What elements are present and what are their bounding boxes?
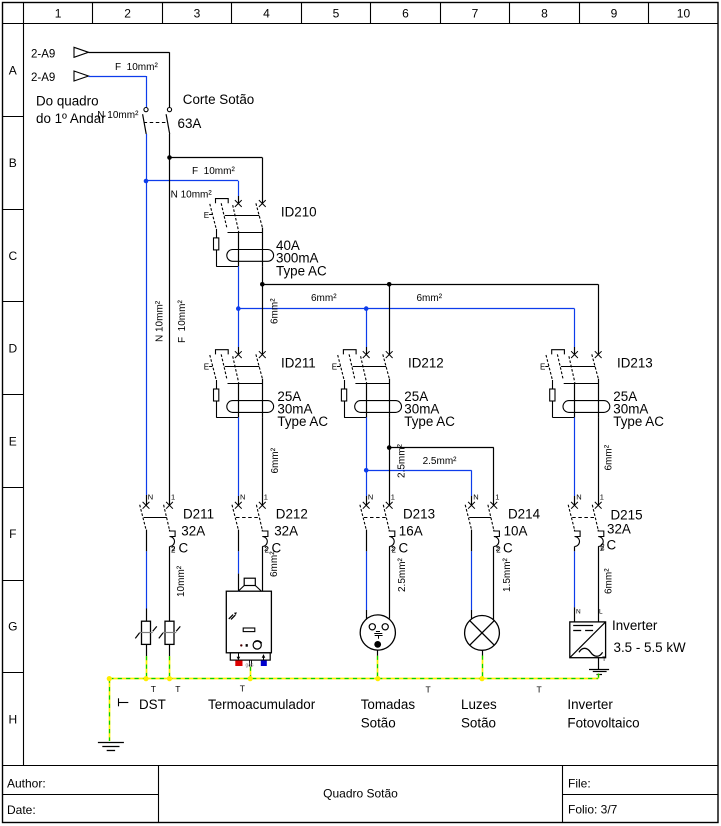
wire F main vertical to D211 bbox=[169, 158, 171, 506]
feeder arrow 2-A9 phase bbox=[74, 47, 89, 57]
svg-text:Sotão: Sotão bbox=[461, 715, 496, 730]
varistor DST N pole bbox=[135, 621, 157, 644]
title block texts bbox=[7, 777, 618, 818]
label ID213 bbox=[617, 356, 653, 371]
svg-text:Fotovoltaico: Fotovoltaico bbox=[567, 715, 639, 730]
wire lamp earth stub bbox=[482, 650, 484, 655]
svg-text:2: 2 bbox=[392, 546, 397, 555]
svg-text:ID212: ID212 bbox=[408, 356, 444, 371]
label Luzes Sotão bbox=[461, 715, 496, 730]
svg-text:T: T bbox=[240, 684, 245, 694]
label T5 bbox=[537, 685, 542, 695]
svg-text:2-A9: 2-A9 bbox=[31, 72, 55, 84]
label DST bbox=[139, 697, 166, 712]
wire F feed horizontal bbox=[89, 52, 170, 54]
label 6mm² D215 feed bbox=[604, 444, 615, 470]
junction F to ID210 bbox=[167, 155, 172, 160]
label do 1º Andar bbox=[36, 111, 106, 126]
label ID210 bbox=[281, 205, 317, 220]
wire D213 N out stub bbox=[366, 530, 368, 552]
svg-text:T: T bbox=[602, 657, 606, 663]
label D215 32A bbox=[607, 522, 631, 537]
svg-text:1: 1 bbox=[171, 492, 175, 501]
svg-text:E: E bbox=[332, 362, 337, 371]
PE junction lamp bbox=[479, 676, 484, 681]
earth symbol main bbox=[98, 743, 124, 751]
svg-text:16A: 16A bbox=[399, 523, 423, 538]
junction F bus left bbox=[260, 282, 265, 287]
svg-text:1: 1 bbox=[391, 492, 395, 501]
wire socket earth stub bbox=[377, 650, 379, 656]
label ID211 30mA bbox=[277, 402, 312, 417]
label Tomadas bbox=[361, 697, 416, 712]
socket outlet Tomadas Sotão bbox=[360, 615, 395, 650]
wire D214 F out bbox=[493, 547, 495, 620]
label D215 2 bbox=[600, 543, 605, 552]
svg-text:D: D bbox=[8, 342, 17, 356]
label ID213 30mA bbox=[613, 402, 648, 417]
label N 10mm² feeder bbox=[97, 110, 139, 121]
label D215 bbox=[611, 508, 643, 523]
svg-text:32A: 32A bbox=[274, 523, 298, 538]
svg-text:3: 3 bbox=[194, 7, 201, 21]
svg-text:F 10mm²: F 10mm² bbox=[177, 300, 188, 343]
PE bus left drop bbox=[109, 679, 111, 741]
svg-text:1: 1 bbox=[495, 492, 499, 501]
wire inverter earth stub bbox=[598, 658, 600, 670]
svg-text:6mm²: 6mm² bbox=[270, 298, 281, 324]
wire F bus bbox=[262, 284, 598, 286]
label 6mm² bus2 bbox=[417, 293, 443, 304]
label N 10mm² to ID210 bbox=[171, 190, 213, 201]
feeder arrow 2-A9 neutral bbox=[74, 71, 89, 81]
label T2 bbox=[175, 684, 180, 694]
label D213 16A bbox=[399, 523, 423, 538]
svg-text:2.5mm²: 2.5mm² bbox=[397, 443, 408, 478]
svg-text:6mm²: 6mm² bbox=[311, 293, 337, 304]
svg-text:N: N bbox=[368, 492, 373, 501]
svg-text:32A: 32A bbox=[181, 523, 205, 538]
wire N stub ID210 bbox=[238, 196, 240, 204]
RCD ID210 40A 300mA bbox=[204, 199, 274, 267]
PE drop socket bbox=[377, 656, 379, 679]
svg-text:H: H bbox=[8, 712, 17, 726]
svg-text:10A: 10A bbox=[504, 523, 528, 538]
label D211 2 bbox=[171, 546, 176, 555]
svg-text:2: 2 bbox=[124, 7, 131, 21]
svg-text:7: 7 bbox=[472, 7, 479, 21]
svg-text:Corte Sotão: Corte Sotão bbox=[183, 92, 254, 107]
svg-text:N: N bbox=[148, 492, 153, 501]
label ID210 300mA bbox=[276, 251, 318, 266]
wire D214 N out stub bbox=[471, 530, 473, 552]
svg-text:do 1º Andar: do 1º Andar bbox=[36, 111, 106, 126]
PE junction heater bbox=[248, 676, 253, 681]
PE junction corner bbox=[107, 676, 112, 681]
label D213 C bbox=[399, 541, 409, 556]
wire ID211 N stub bbox=[238, 496, 240, 505]
junction N to ID210 bbox=[144, 179, 149, 184]
svg-text:D214: D214 bbox=[508, 507, 541, 522]
svg-text:2.5mm²: 2.5mm² bbox=[397, 557, 408, 592]
svg-text:E: E bbox=[204, 211, 209, 220]
svg-text:8: 8 bbox=[541, 7, 548, 21]
wire N drop to ID211 blue bbox=[238, 309, 240, 347]
wire N drop to ID212 blue bbox=[366, 309, 368, 347]
PE junction socket bbox=[375, 676, 380, 681]
wire D213 N out blue bbox=[366, 551, 368, 610]
breaker D212 32A bbox=[232, 492, 268, 553]
label D211 bbox=[183, 507, 214, 522]
wire D211 N out blue bbox=[146, 551, 148, 608]
svg-text:ID213: ID213 bbox=[617, 356, 653, 371]
wire F branch to ID210 bbox=[170, 157, 263, 159]
label 2.5mm² branch bbox=[423, 456, 458, 467]
breaker D213 16A bbox=[360, 492, 395, 553]
wire ID210 N out blue bbox=[238, 266, 240, 308]
label Inverter Fotovoltaico 2 bbox=[567, 715, 639, 730]
svg-text:T: T bbox=[537, 685, 542, 695]
svg-text:G: G bbox=[8, 620, 17, 634]
wire ID212 N out blue bbox=[366, 417, 368, 470]
RCD ID212 25A 30mA bbox=[332, 350, 402, 418]
svg-text:2.5mm²: 2.5mm² bbox=[423, 456, 458, 467]
svg-text:T: T bbox=[151, 684, 156, 694]
svg-text:Type AC: Type AC bbox=[277, 414, 328, 429]
wire N feed drop bbox=[146, 76, 148, 107]
wire D214 N out stub2 bbox=[471, 610, 473, 619]
wire ID213 N stub bbox=[574, 496, 576, 505]
PE drop DST F bbox=[169, 656, 171, 679]
svg-text:B: B bbox=[9, 156, 17, 170]
svg-text:C: C bbox=[503, 541, 513, 556]
label ID212 Type AC bbox=[404, 414, 455, 429]
wire N stub D213 bbox=[366, 496, 368, 505]
svg-text:Type AC: Type AC bbox=[404, 414, 455, 429]
svg-text:1: 1 bbox=[55, 7, 62, 21]
junction F to D213 bbox=[387, 445, 392, 450]
svg-text:C: C bbox=[399, 541, 409, 556]
wire DST N earth stub bbox=[146, 644, 148, 656]
svg-text:6mm²: 6mm² bbox=[270, 447, 281, 473]
svg-text:E: E bbox=[204, 362, 209, 371]
wire D212 F out bbox=[262, 547, 264, 592]
svg-text:Luzes: Luzes bbox=[461, 697, 497, 712]
wire N stub ID212 bbox=[366, 347, 368, 355]
svg-text:T: T bbox=[426, 685, 431, 695]
label Tomadas Sotão bbox=[361, 715, 396, 730]
label 63A bbox=[178, 116, 202, 131]
label D212 C bbox=[272, 541, 282, 556]
svg-text:2: 2 bbox=[496, 546, 501, 555]
label D214 10A bbox=[504, 523, 528, 538]
label ID211 25A bbox=[277, 389, 301, 404]
wire N stub ID213 bbox=[574, 347, 576, 355]
svg-text:A: A bbox=[9, 63, 17, 77]
wire N drop to D214 blue bbox=[471, 470, 473, 496]
svg-text:DST: DST bbox=[139, 697, 166, 712]
wire N stub D211 bbox=[146, 495, 148, 505]
svg-text:6mm²: 6mm² bbox=[417, 293, 443, 304]
wire F drop to ID213 bbox=[598, 284, 600, 354]
lamp Luzes Sotão bbox=[465, 616, 500, 651]
svg-text:2: 2 bbox=[171, 546, 176, 555]
svg-text:6mm²: 6mm² bbox=[269, 551, 280, 577]
svg-text:E: E bbox=[9, 434, 17, 448]
wire D215 N out stub2 bbox=[574, 607, 576, 622]
wire ID210 F out bbox=[262, 266, 264, 284]
wire ID211 F out bbox=[262, 417, 264, 505]
svg-text:T: T bbox=[175, 684, 180, 694]
svg-text:2: 2 bbox=[600, 543, 605, 552]
label Luzes bbox=[461, 697, 497, 712]
wire N stub ID211 bbox=[238, 347, 240, 355]
label T1 bbox=[151, 684, 156, 694]
label 6mm² ID211 to D212 bbox=[270, 447, 281, 473]
wire D212 N out stub bbox=[238, 530, 240, 552]
svg-text:9: 9 bbox=[611, 7, 618, 21]
wire N bus bbox=[238, 308, 574, 310]
wire D213 F out bbox=[389, 547, 391, 619]
svg-text:Author:: Author: bbox=[7, 777, 46, 791]
label Inverter Fotovoltaico 1 bbox=[567, 697, 613, 712]
svg-text:10mm²: 10mm² bbox=[176, 565, 187, 597]
label F 10mm² vertical bbox=[177, 300, 188, 343]
svg-text:F 10mm²: F 10mm² bbox=[192, 166, 235, 177]
wire F below switch bbox=[169, 134, 171, 158]
svg-text:L: L bbox=[599, 609, 603, 616]
svg-text:Quadro Sotão: Quadro Sotão bbox=[323, 787, 398, 801]
svg-text:1.5mm²: 1.5mm² bbox=[502, 557, 513, 592]
wire heater N stub blue bbox=[238, 590, 240, 592]
PE bus horizontal bbox=[109, 678, 598, 680]
svg-text:63A: 63A bbox=[178, 116, 202, 131]
svg-text:Inverter: Inverter bbox=[612, 618, 658, 633]
wire D215 N out stub bbox=[574, 547, 576, 552]
wire N drop to ID213 blue bbox=[574, 309, 576, 347]
label Corte Sotão bbox=[183, 92, 254, 107]
svg-text:C: C bbox=[179, 541, 189, 556]
svg-text:Tomadas: Tomadas bbox=[361, 697, 416, 712]
label D212 32A bbox=[274, 523, 298, 538]
svg-text:4: 4 bbox=[263, 7, 270, 21]
wire F drop to D214 bbox=[493, 448, 495, 506]
PE drop heater bbox=[250, 667, 252, 679]
svg-text:N: N bbox=[240, 492, 245, 501]
wire N feed horizontal bbox=[89, 76, 147, 78]
svg-text:Do quadro: Do quadro bbox=[36, 93, 99, 108]
svg-text:ID210: ID210 bbox=[281, 205, 317, 220]
label D212 bbox=[276, 507, 308, 522]
wire D214 N out blue bbox=[471, 551, 473, 610]
wire D215 N out blue bbox=[574, 551, 576, 607]
wire D212 N out stub2 bbox=[238, 574, 240, 591]
inverter box bbox=[570, 609, 607, 664]
junction N bus to ID212 bbox=[364, 306, 369, 311]
svg-text:N: N bbox=[473, 492, 478, 501]
wire D215 L out bbox=[598, 547, 600, 622]
svg-text:D215: D215 bbox=[611, 508, 643, 523]
label T3 bbox=[240, 684, 245, 694]
wire N branch to ID210 bbox=[146, 180, 238, 182]
svg-text:N: N bbox=[576, 609, 581, 616]
wire F drop to ID211 bbox=[262, 284, 264, 354]
label D212 2 bbox=[265, 546, 270, 555]
label ID213 Type AC bbox=[613, 414, 664, 429]
svg-text:N 10mm²: N 10mm² bbox=[155, 300, 166, 342]
label 1.5mm² D214 out bbox=[502, 557, 513, 592]
label ID213 25A bbox=[613, 389, 637, 404]
svg-text:ID211: ID211 bbox=[281, 356, 316, 371]
wire N branch to D214 blue bbox=[366, 470, 471, 472]
svg-text:File:: File: bbox=[568, 777, 591, 791]
svg-text:D212: D212 bbox=[276, 507, 308, 522]
label D214 C bbox=[503, 541, 513, 556]
label F 10mm² feeder bbox=[115, 62, 158, 73]
label F 10mm² to ID210 bbox=[192, 166, 235, 177]
wire N below switch bbox=[146, 134, 148, 181]
svg-text:32A: 32A bbox=[607, 522, 631, 537]
label Do quadro bbox=[36, 93, 99, 108]
label 6mm² ID211 drop bbox=[270, 298, 281, 324]
label ID212 bbox=[408, 356, 444, 371]
label Termoacumulador bbox=[208, 697, 316, 712]
svg-text:Folio: 3/7: Folio: 3/7 bbox=[568, 803, 618, 817]
svg-text:F 10mm²: F 10mm² bbox=[115, 62, 158, 73]
svg-text:E: E bbox=[540, 362, 545, 371]
label N 10mm² vertical bbox=[155, 300, 166, 342]
wire N drop to D213 blue bbox=[366, 470, 368, 496]
wire DST F earth stub bbox=[169, 644, 171, 656]
svg-text:Type AC: Type AC bbox=[613, 414, 664, 429]
wire F feed drop bbox=[169, 52, 171, 107]
varistor DST F pole bbox=[159, 621, 181, 644]
PE junction DST N bbox=[143, 676, 148, 681]
water heater Termoacumulador bbox=[226, 578, 271, 668]
label 2-A9 neutral bbox=[31, 72, 55, 84]
label 6mm² D212 out bbox=[269, 551, 280, 577]
svg-text:N 10mm²: N 10mm² bbox=[97, 110, 139, 121]
wire N drop to ID210 bbox=[238, 181, 240, 196]
label ID210 40A bbox=[276, 238, 300, 253]
label 2.5mm² D213 out bbox=[397, 557, 408, 592]
PE drop lamp bbox=[482, 656, 484, 679]
label D214 bbox=[508, 507, 541, 522]
switch Q Corte Sotão 63A bbox=[143, 108, 172, 135]
wire D213 N out stub2 bbox=[366, 610, 368, 619]
RCD ID211 25A 30mA bbox=[204, 350, 274, 418]
svg-text:3.5 - 5.5 kW: 3.5 - 5.5 kW bbox=[614, 640, 687, 655]
label D211 32A bbox=[181, 523, 205, 538]
wire F drop to ID212 bbox=[389, 284, 391, 354]
junction N to D213 bbox=[364, 468, 369, 473]
label T4 bbox=[426, 685, 431, 695]
wire N stub D214 bbox=[471, 496, 473, 505]
svg-text:1: 1 bbox=[600, 492, 604, 501]
breaker D215 32A bbox=[568, 492, 604, 553]
label D214 2 bbox=[496, 546, 501, 555]
svg-text:1: 1 bbox=[264, 492, 268, 501]
svg-text:6mm²: 6mm² bbox=[604, 568, 615, 594]
PE riser inverter bbox=[598, 674, 600, 679]
label ID210 Type AC bbox=[276, 263, 327, 278]
wire heater F stub bbox=[262, 590, 264, 592]
PE junction DST F bbox=[167, 676, 172, 681]
svg-text:10: 10 bbox=[677, 7, 691, 21]
label ID212 30mA bbox=[404, 402, 439, 417]
wire N main vertical to D211 bbox=[146, 181, 148, 495]
label D213 2 bbox=[392, 546, 397, 555]
svg-text:F: F bbox=[9, 527, 16, 541]
svg-text:5: 5 bbox=[333, 7, 340, 21]
svg-text:Sotão: Sotão bbox=[361, 715, 396, 730]
breaker D214 10A bbox=[465, 492, 500, 553]
svg-text:N 10mm²: N 10mm² bbox=[171, 190, 213, 201]
wire F drop to ID210 bbox=[262, 158, 264, 204]
svg-text:Inverter: Inverter bbox=[567, 697, 613, 712]
junction N bus left bbox=[236, 306, 241, 311]
svg-text:Termoacumulador: Termoacumulador bbox=[208, 697, 316, 712]
svg-text:D213: D213 bbox=[403, 507, 435, 522]
RCD ID213 25A 30mA bbox=[540, 350, 610, 418]
label D215 C bbox=[607, 538, 617, 553]
svg-text:Type AC: Type AC bbox=[276, 263, 327, 278]
label ID212 25A bbox=[404, 389, 428, 404]
label 6mm² bus1 bbox=[311, 293, 337, 304]
junction F bus to ID212 bbox=[387, 282, 392, 287]
breaker D211 32A bbox=[140, 492, 176, 553]
wire D211 F out bbox=[169, 547, 171, 622]
svg-text:2-A9: 2-A9 bbox=[31, 49, 55, 61]
wire ID211 N out blue bbox=[238, 417, 240, 496]
svg-text:C: C bbox=[607, 538, 617, 553]
label 2-A9 phase bbox=[31, 49, 55, 61]
PE tick icon before DST bbox=[118, 698, 128, 706]
label D213 bbox=[403, 507, 435, 522]
wire ID213 N out blue bbox=[574, 417, 576, 496]
svg-text:6mm²: 6mm² bbox=[604, 444, 615, 470]
wire D211 N out stub2 bbox=[146, 609, 148, 622]
svg-text:C: C bbox=[8, 249, 17, 263]
label 2.5mm² D213 drop bbox=[397, 443, 408, 478]
wire ID213 F out bbox=[598, 417, 600, 505]
PE drop DST N bbox=[146, 656, 148, 679]
label 6mm² D215 out bbox=[604, 568, 615, 594]
svg-text:D211: D211 bbox=[183, 507, 214, 522]
label 3.5 - 5.5 kW bbox=[614, 640, 687, 655]
wire ID212 F out bbox=[389, 417, 391, 447]
wire D212 N out blue bbox=[238, 551, 240, 573]
earth symbol inverter bbox=[589, 670, 609, 675]
label ID211 bbox=[281, 356, 316, 371]
label Inverter bbox=[612, 618, 658, 633]
svg-text:N: N bbox=[576, 492, 581, 501]
svg-text:Date:: Date: bbox=[7, 803, 36, 817]
label 10mm² D211 out bbox=[176, 565, 187, 597]
label ID211 Type AC bbox=[277, 414, 328, 429]
wire F branch to D214 bbox=[389, 447, 494, 449]
wire D211 N out stub bbox=[146, 530, 148, 552]
svg-text:6: 6 bbox=[402, 7, 409, 21]
label D211 C bbox=[179, 541, 189, 556]
wire F drop to D213 bbox=[389, 448, 391, 506]
